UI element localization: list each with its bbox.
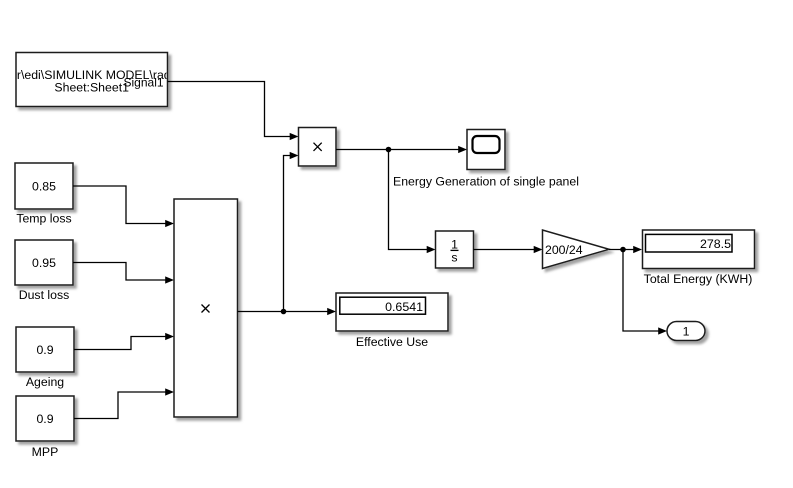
arrowhead into product input 1 xyxy=(165,220,174,227)
wire multiply output to scope xyxy=(336,149,463,151)
svg-text:1: 1 xyxy=(683,324,690,338)
constant block 0.85 xyxy=(15,163,73,209)
arrowhead into product input 4 xyxy=(165,388,174,395)
constant block 0.95 xyxy=(15,240,73,285)
svg-text:0.6541: 0.6541 xyxy=(385,300,423,314)
arrowhead into integrator xyxy=(427,246,436,253)
arrowhead into gain xyxy=(534,246,543,253)
svg-text:Energy Generation of single pa: Energy Generation of single panel xyxy=(393,175,579,189)
wire Temp loss to product input 1 xyxy=(73,186,170,224)
label Dust loss xyxy=(19,288,70,302)
junction node after gain xyxy=(620,247,626,253)
svg-text:0.85: 0.85 xyxy=(32,179,56,193)
svg-text:Total Energy (KWH): Total Energy (KWH) xyxy=(644,272,753,286)
wire junction down to integrator xyxy=(389,150,432,250)
scope block xyxy=(467,130,505,170)
display block Effective Use 0.6541 xyxy=(336,293,448,331)
label Temp loss xyxy=(16,212,71,226)
svg-text:s: s xyxy=(451,251,457,265)
gain block 200/24 xyxy=(543,230,610,269)
product block xyxy=(174,199,238,417)
arrowhead into product input 3 xyxy=(165,333,174,340)
constant block 0.9 Ageing xyxy=(16,327,74,372)
svg-text:Signal1: Signal1 xyxy=(124,76,164,90)
arrowhead into Effective Use display xyxy=(327,308,336,315)
svg-text:0.9: 0.9 xyxy=(36,412,53,426)
svg-text:Dust loss: Dust loss xyxy=(19,288,70,302)
svg-text:0.9: 0.9 xyxy=(36,343,53,357)
wire junction up to multiply input 2 xyxy=(284,156,295,312)
integrator block 1/s xyxy=(436,231,474,268)
arrowhead into out port xyxy=(658,327,667,334)
wire junction down to out port xyxy=(623,250,663,332)
label Effective Use xyxy=(356,335,428,349)
svg-text:Temp loss: Temp loss xyxy=(16,212,71,226)
svg-text:Sheet:Sheet1: Sheet:Sheet1 xyxy=(54,80,129,94)
wire Dust loss to product input 2 xyxy=(73,263,170,281)
display block Total Energy 278.5 xyxy=(643,230,755,269)
arrowhead into Total Energy display xyxy=(633,246,642,253)
label Total Energy (KWH) xyxy=(644,272,753,286)
signal name label Signal1 xyxy=(124,76,164,90)
wire product output to Effective Use display xyxy=(238,311,332,313)
arrowhead into scope xyxy=(458,146,467,153)
wire from spreadsheet to multiply input 1 xyxy=(168,82,295,137)
junction node after multiply xyxy=(386,147,392,153)
svg-text:Ageing: Ageing xyxy=(26,375,64,389)
wire integrator output to gain xyxy=(474,249,539,251)
wire Ageing to product input 3 xyxy=(74,337,170,350)
label Energy Generation of single panel xyxy=(393,175,579,189)
junction node at product output xyxy=(281,309,287,315)
out port block 1 xyxy=(667,322,705,341)
label MPP xyxy=(32,445,59,459)
label Ageing xyxy=(26,375,64,389)
constant block 0.9 MPP xyxy=(16,396,74,441)
svg-text:0.95: 0.95 xyxy=(32,256,56,270)
from-spreadsheet block U1 xyxy=(10,53,173,107)
svg-text:1: 1 xyxy=(451,237,458,251)
arrowhead into multiply input 1 xyxy=(290,133,299,140)
svg-text:278.5: 278.5 xyxy=(700,237,731,251)
multiply block xyxy=(299,128,337,167)
wire MPP to product input 4 xyxy=(74,392,170,419)
svg-text:200/24: 200/24 xyxy=(545,243,583,257)
arrowhead into multiply input 2 xyxy=(290,152,299,159)
svg-text:Effective Use: Effective Use xyxy=(356,335,428,349)
svg-text:MPP: MPP xyxy=(32,445,59,459)
wire gain output to Total Energy display xyxy=(609,249,638,251)
arrowhead into product input 2 xyxy=(165,276,174,283)
